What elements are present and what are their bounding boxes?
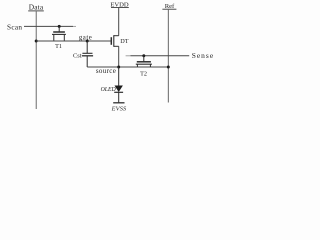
junction: source node / OLED anode <box>117 66 120 69</box>
junction: data line to T1 <box>35 40 38 43</box>
capacitor Cst <box>82 41 93 67</box>
svg-text:T1: T1 <box>55 43 62 50</box>
svg-text:source: source <box>96 67 116 75</box>
junction: sense to T2 gate <box>142 54 145 57</box>
wire: scan line <box>24 25 73 27</box>
transistor T2 <box>136 56 152 67</box>
transistor T1 <box>52 26 66 41</box>
wire: source node horizontal <box>87 66 168 68</box>
wire: sense line <box>131 55 190 57</box>
svg-text:DT: DT <box>120 38 128 45</box>
wire: Data line vertical <box>35 11 37 109</box>
svg-text:Data: Data <box>29 3 44 12</box>
svg-text:OLED: OLED <box>101 87 117 93</box>
wire: EVDD to DT drain <box>118 8 120 36</box>
svg-text:Cst: Cst <box>73 53 82 60</box>
svg-text:Sense: Sense <box>192 51 215 60</box>
wire: DT source down to source node <box>118 46 120 67</box>
svg-text:gate: gate <box>79 34 93 41</box>
wire: Ref line vertical <box>167 10 169 103</box>
node label Data <box>28 3 44 12</box>
svg-text:Scan: Scan <box>7 24 22 32</box>
svg-text:EVSS: EVSS <box>111 105 127 112</box>
transistor DT (drive) <box>111 35 118 47</box>
node label EVDD <box>110 2 129 9</box>
OLED diode <box>114 67 123 102</box>
junction: scan to T1 gate <box>58 25 61 28</box>
ground EVSS bar <box>113 102 124 104</box>
junction: gate node to Cst <box>86 40 89 43</box>
wire: scan line fade tail <box>73 25 76 27</box>
svg-text:T2: T2 <box>140 70 147 77</box>
junction: T2 to ref line <box>167 66 170 69</box>
wire: gate node (T1 to DT gate) <box>36 40 111 42</box>
wire: sense line fade tail <box>126 55 131 57</box>
node label Ref <box>162 3 176 10</box>
